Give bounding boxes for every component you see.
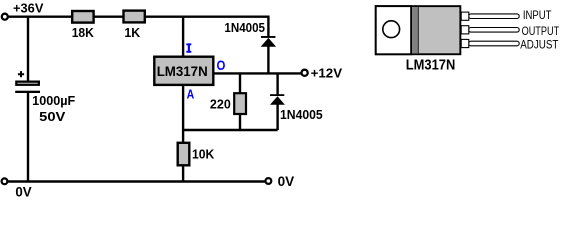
lead 2 OUTPUT stub <box>461 26 469 34</box>
svg-text:1N4005: 1N4005 <box>224 20 265 35</box>
package dark stripe <box>412 7 418 53</box>
wire input to regulator <box>182 17 184 56</box>
resistor R1 18K <box>72 11 93 23</box>
wire 220 branch from output rail <box>239 73 241 92</box>
svg-text:220: 220 <box>210 97 231 112</box>
svg-text:ADJUST: ADJUST <box>520 37 559 51</box>
svg-text:0V: 0V <box>278 173 295 189</box>
lead 2 OUTPUT pin <box>469 28 520 33</box>
wire ground rail <box>8 180 265 182</box>
diode D1 1N4005 triangle <box>261 38 276 47</box>
output terminal +12V <box>302 70 308 76</box>
wire adjust node horizontal <box>183 129 278 131</box>
wire 220 bottom to adjust node <box>239 115 241 131</box>
diode D2 1N4005 triangle <box>270 96 285 105</box>
wire D1 to output rail <box>267 46 269 73</box>
wire capacitor branch down <box>27 17 29 81</box>
package metal tab white section <box>376 6 411 54</box>
input terminal +36V <box>2 14 8 20</box>
wire D2 to adjust node <box>276 105 278 131</box>
diode D1 1N4005 cathode bar <box>261 36 275 38</box>
package stripe right edge <box>417 7 419 53</box>
wire output rail <box>215 72 301 74</box>
package mounting hole <box>383 21 400 38</box>
svg-text:LM317N: LM317N <box>157 63 208 79</box>
op-amp U1 LM317N regulator block <box>154 57 213 85</box>
svg-text:1000µF: 1000µF <box>32 94 75 108</box>
wire input rail right with corner down to D1 <box>145 17 269 37</box>
lead 1 INPUT stub <box>461 12 469 20</box>
svg-text:A: A <box>187 86 195 101</box>
svg-text:O: O <box>217 58 226 73</box>
resistor R4 10K <box>178 143 190 166</box>
svg-text:0V: 0V <box>15 183 32 199</box>
capacitor C1 top plate <box>16 82 38 85</box>
svg-text:18K: 18K <box>72 26 94 40</box>
svg-text:50V: 50V <box>39 110 66 124</box>
wire 10K to ground rail <box>182 166 184 182</box>
svg-text:OUTPUT: OUTPUT <box>522 24 560 38</box>
wire capacitor to ground rail <box>27 93 29 182</box>
svg-text:+12V: +12V <box>311 66 343 80</box>
svg-text:1N4005: 1N4005 <box>280 107 323 122</box>
package body LM317N TO-220 <box>376 6 461 54</box>
capacitor C1 plus sign <box>18 71 24 77</box>
wire D2 branch from output rail <box>276 73 278 94</box>
wire between 18K and 1K <box>94 16 124 18</box>
svg-text:INPUT: INPUT <box>523 8 552 22</box>
ground terminal right 0V <box>266 178 272 184</box>
lead 1 INPUT pin <box>469 14 520 19</box>
pin label I <box>186 43 191 52</box>
svg-text:LM317N: LM317N <box>406 57 456 74</box>
lead 3 ADJUST pin <box>469 41 520 46</box>
resistor R3 220 <box>234 93 246 114</box>
lead 3 ADJUST stub <box>461 39 469 47</box>
resistor R2 1K <box>124 11 145 23</box>
diode D2 1N4005 cathode bar <box>270 94 284 96</box>
ground terminal left 0V <box>2 178 8 184</box>
svg-text:10K: 10K <box>192 147 215 162</box>
wire regulator adjust down to 10K <box>182 86 184 143</box>
svg-text:+36V: +36V <box>13 2 44 16</box>
svg-text:1K: 1K <box>124 26 140 40</box>
capacitor C1 bottom plate <box>15 91 40 93</box>
wire input rail left <box>8 16 72 18</box>
